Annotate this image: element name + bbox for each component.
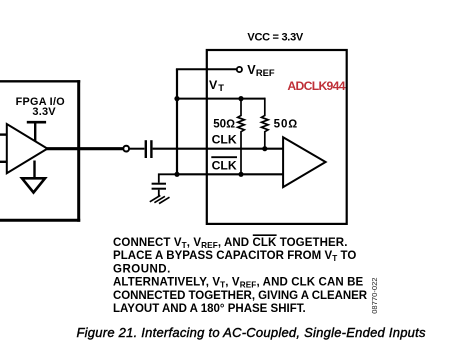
op-amp U2 (clock receiver) — [283, 137, 326, 187]
capacitor C1 (AC coupling) — [145, 140, 147, 158]
svg-text:REF: REF — [256, 67, 275, 78]
node VT-R1 junction — [238, 96, 243, 101]
note text block — [113, 237, 368, 315]
svg-text:LAYOUT AND A 180° PHASE SHIFT.: LAYOUT AND A 180° PHASE SHIFT. — [113, 303, 306, 315]
svg-text:CONNECT VT, VREF, AND CLK TOGE: CONNECT VT, VREF, AND CLK TOGETHER. — [113, 237, 348, 250]
wire VREF horizontal — [176, 68, 237, 70]
wire power stem — [34, 122, 36, 141]
wire input stub top — [0, 133, 7, 135]
svg-text:VCC = 3.3V: VCC = 3.3V — [247, 32, 304, 44]
node CLKB-R1 junction — [238, 172, 243, 177]
resistor R2 50ohm (VT to CLK) — [262, 98, 269, 150]
wire VT horizontal — [176, 98, 265, 100]
ADCLK944 box — [207, 50, 347, 224]
node VREF pin circle — [237, 67, 242, 72]
wire bypass branch — [159, 174, 177, 183]
svg-text:ALTERNATIVELY, VT, VREF, AND C: ALTERNATIVELY, VT, VREF, AND CLK CAN BE — [113, 277, 364, 290]
wire CLKB line — [177, 173, 283, 175]
FPGA I/O box — [0, 80, 80, 82]
capacitor C2 (bypass) — [152, 183, 166, 185]
wire buffer output — [46, 147, 123, 150]
note CLK overline line1 — [253, 234, 277, 236]
svg-text:T: T — [218, 82, 224, 93]
wire cap to ground — [158, 190, 160, 197]
svg-text:50Ω: 50Ω — [213, 117, 235, 130]
svg-text:CLK: CLK — [212, 133, 237, 147]
pin (open circle) — [123, 146, 129, 152]
buffer U1 (FPGA output driver) — [7, 124, 48, 173]
svg-text:V: V — [209, 78, 218, 92]
svg-text:50Ω: 50Ω — [274, 117, 299, 130]
wire CLK line — [153, 148, 284, 150]
node VT-bus junction — [174, 96, 179, 101]
power rail 3.3V bar — [27, 121, 46, 124]
node CLKB-bus junction — [174, 172, 179, 177]
wire left vertical bus — [176, 69, 178, 174]
svg-text:3.3V: 3.3V — [32, 106, 56, 118]
wire pin to capacitor — [130, 148, 145, 150]
svg-text:ADCLK944: ADCLK944 — [287, 79, 345, 93]
node CLK junction — [262, 146, 267, 151]
svg-text:Figure 21. Interfacing to AC-C: Figure 21. Interfacing to AC-Coupled, Si… — [77, 325, 426, 340]
wire input stub bottom — [0, 161, 7, 163]
svg-text:08770-022: 08770-022 — [370, 277, 379, 313]
svg-text:GROUND.: GROUND. — [113, 263, 171, 275]
ground — [33, 161, 35, 179]
svg-text:CONNECTED TOGETHER, GIVING A C: CONNECTED TOGETHER, GIVING A CLEANER — [113, 290, 368, 302]
svg-text:CLK: CLK — [212, 158, 237, 172]
resistor R1 50ohm (VT to CLKB) — [238, 98, 245, 176]
svg-text:PLACE A BYPASS CAPACITOR FROM: PLACE A BYPASS CAPACITOR FROM VT TO — [113, 250, 356, 263]
ground (hatched) — [150, 195, 161, 201]
